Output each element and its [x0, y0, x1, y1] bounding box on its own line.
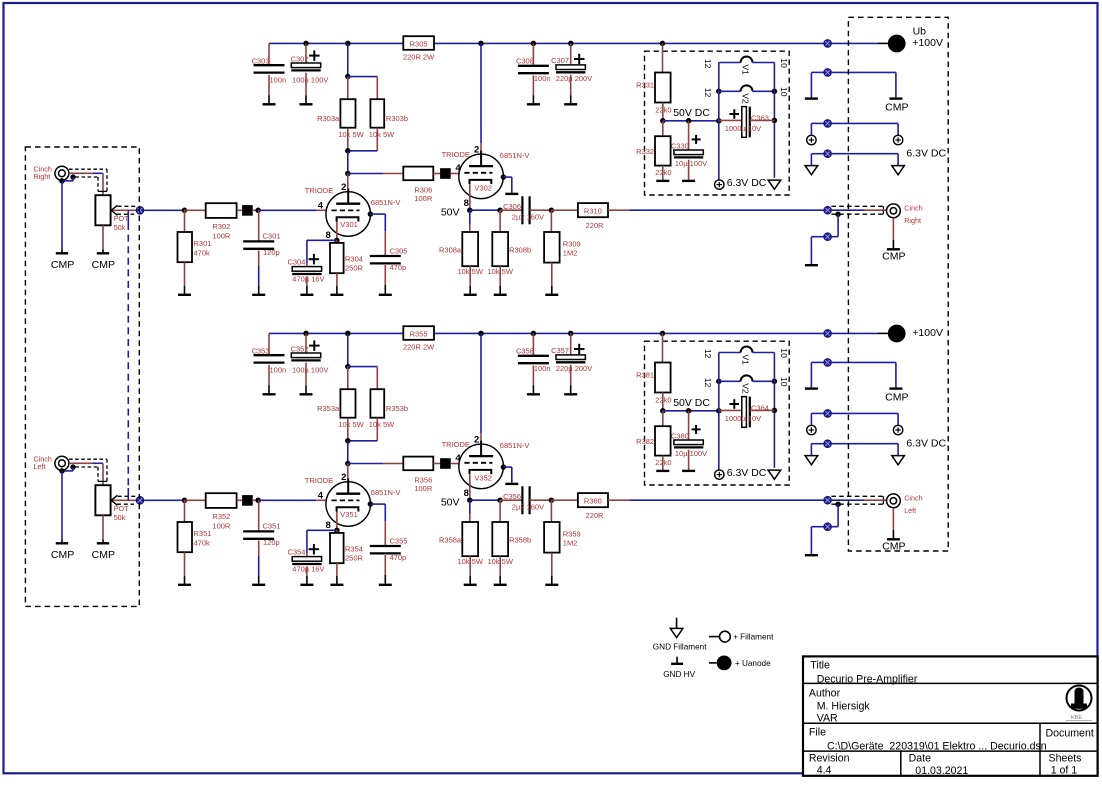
ground filament [768, 470, 781, 479]
svg-text:Title: Title [810, 660, 830, 672]
svg-text:VAR: VAR [817, 713, 838, 725]
svg-text:250R: 250R [345, 554, 364, 563]
wire input tip [69, 173, 103, 195]
svg-text:V302: V302 [474, 183, 492, 192]
svg-text:100n: 100n [534, 74, 551, 83]
svg-text:220R 2W: 220R 2W [403, 53, 435, 62]
wire to anode terminal [832, 42, 888, 44]
svg-text:CMP: CMP [885, 101, 908, 113]
svg-text:4: 4 [455, 163, 461, 174]
svg-text:TRIODE: TRIODE [305, 186, 333, 195]
svg-text:100R: 100R [212, 232, 231, 241]
title block [803, 656, 1098, 777]
resistor R302 100R [206, 203, 237, 241]
svg-text:C356: C356 [503, 492, 521, 501]
svg-text:2µ2 160V: 2µ2 160V [512, 503, 544, 512]
ground filament [805, 444, 823, 465]
svg-text:C306: C306 [503, 202, 521, 211]
ground [682, 160, 695, 181]
svg-text:+100V: +100V [912, 327, 943, 339]
svg-text:+ Uanode: + Uanode [735, 659, 771, 668]
wire input tip [69, 463, 103, 485]
capacitor C303 100n [252, 43, 287, 84]
connector Cinch Right input [34, 165, 69, 181]
capacitor C305 470p [368, 211, 408, 272]
resistor R308b 10k 5W [487, 210, 531, 276]
svg-text:V2: V2 [741, 93, 751, 104]
connector output shield [824, 214, 838, 240]
svg-text:CMP: CMP [882, 251, 905, 263]
svg-text:POT: POT [114, 214, 129, 223]
svg-text:8: 8 [464, 488, 469, 499]
svg-text:V301: V301 [340, 220, 358, 229]
resistor R301 470k [178, 210, 212, 262]
connector 6.3V return [824, 440, 832, 448]
svg-text:CMP: CMP [92, 549, 115, 561]
resistor R353b 10k 5W [348, 389, 408, 441]
svg-text:R382: R382 [636, 437, 654, 446]
net tie [433, 169, 459, 179]
svg-text:R310: R310 [584, 206, 602, 215]
triode V302 6851N-V [442, 41, 530, 211]
svg-text:10: 10 [779, 348, 789, 358]
capacitor C351 120p [243, 500, 280, 547]
svg-text:8: 8 [326, 230, 331, 241]
potentiometer POT 50k [95, 485, 137, 522]
svg-text:10k 5W: 10k 5W [338, 130, 364, 139]
ground [805, 527, 824, 556]
svg-text:01.03.2021: 01.03.2021 [915, 765, 968, 777]
capacitor C358 100n [516, 331, 551, 373]
svg-text:470k: 470k [194, 248, 211, 257]
svg-text:R303b: R303b [386, 114, 408, 123]
triode V351 6851N-V [305, 464, 401, 531]
svg-text:470p: 470p [390, 553, 407, 562]
ground [300, 363, 313, 395]
svg-text:100R: 100R [414, 194, 433, 203]
terminal Uanode +100V [888, 26, 943, 53]
svg-text:C358: C358 [516, 347, 534, 356]
heater supply box [645, 341, 790, 485]
ground filament [768, 180, 781, 189]
svg-text:R359: R359 [563, 529, 581, 538]
svg-text:1000µ 10V: 1000µ 10V [725, 414, 761, 423]
ground [564, 75, 577, 105]
resistor R309 1M2 [544, 207, 581, 262]
svg-text:M. Hiersigk: M. Hiersigk [817, 701, 871, 713]
ground CMP [92, 225, 115, 270]
svg-text:Author: Author [809, 688, 841, 700]
capacitor C363 1000u 10V [719, 107, 775, 138]
capacitor C304 470u 16V [287, 238, 339, 284]
resistor R310 220R [551, 203, 608, 230]
connector wiper [136, 496, 144, 504]
svg-text:220R: 220R [586, 511, 605, 520]
svg-text:R354: R354 [345, 544, 363, 553]
capacitor C356 2u2 160V [500, 486, 551, 514]
wire to anode terminal [832, 332, 888, 334]
capacitor C364 1000u 10V [719, 397, 775, 428]
svg-text:C301: C301 [263, 232, 281, 241]
ground [330, 273, 343, 295]
resistor R352 100R [206, 493, 237, 531]
svg-text:4: 4 [455, 453, 461, 464]
svg-text:R308a: R308a [439, 245, 462, 254]
ground [656, 456, 669, 471]
ground CMP [882, 508, 905, 553]
connector output signal [824, 496, 832, 504]
net tie [433, 459, 459, 469]
connector Cinch Left output [887, 494, 923, 515]
svg-text:1000µ 10V: 1000µ 10V [725, 124, 761, 133]
connector ground CMP [824, 359, 832, 367]
svg-text:100n: 100n [270, 76, 287, 85]
svg-text:CMP: CMP [51, 549, 74, 561]
svg-text:6851N-V: 6851N-V [500, 441, 530, 450]
capacitor C355 470p [368, 501, 408, 562]
connector supply +100V [824, 40, 832, 48]
svg-text:10k 5W: 10k 5W [338, 420, 364, 429]
ground filament [832, 148, 947, 175]
ground [501, 464, 519, 484]
resistor R354 250R [330, 530, 364, 563]
svg-text:470k: 470k [194, 538, 211, 547]
input cable shield [62, 459, 107, 481]
net tie [237, 206, 261, 216]
svg-text:6.3V DC: 6.3V DC [727, 467, 767, 479]
connector Cinch Right output [887, 204, 923, 225]
capacitor C352 100u 100V [291, 331, 329, 375]
svg-text:CMP: CMP [92, 259, 115, 271]
wire +100V supply rail right channel [269, 42, 823, 44]
resistor R308a 10k 5W [439, 210, 484, 276]
ground filament [805, 154, 823, 175]
ground CMP [832, 362, 909, 403]
ground [379, 265, 392, 295]
resistor R358a 10k 5W [439, 500, 484, 566]
svg-text:C303: C303 [252, 57, 270, 66]
svg-text:10µ 100V: 10µ 100V [675, 159, 707, 168]
legend ground HV symbol [663, 657, 695, 680]
ground CMP [882, 218, 905, 263]
resistor R303b 10k 5W [348, 99, 408, 151]
svg-text:R303a: R303a [317, 114, 340, 123]
svg-text:1M2: 1M2 [563, 538, 578, 547]
node 50V [441, 497, 503, 509]
ground [263, 365, 276, 394]
ground [252, 251, 265, 295]
svg-text:50k: 50k [114, 513, 126, 522]
svg-text:10k 5W: 10k 5W [369, 130, 395, 139]
tube heater V2 [703, 375, 789, 394]
shielded output wire [831, 206, 886, 217]
svg-text:+ Fillament: + Fillament [733, 632, 774, 641]
svg-text:C380: C380 [671, 431, 689, 440]
wire heater left leg [718, 63, 720, 121]
ground CMP [92, 515, 115, 561]
ground CMP [832, 72, 909, 113]
resistor R304 250R [330, 240, 364, 273]
svg-text:100µ 100V: 100µ 100V [292, 366, 328, 375]
legend + Filament terminal [709, 631, 774, 642]
resistor R332 22k0 [636, 121, 671, 177]
svg-text:Cinch: Cinch [904, 494, 922, 503]
ground [545, 553, 558, 585]
resistor R351 470k [178, 500, 212, 552]
svg-text:50V: 50V [441, 207, 460, 219]
ground [252, 541, 265, 585]
svg-text:Cinch: Cinch [904, 204, 922, 213]
svg-text:12: 12 [703, 88, 713, 98]
wire +100V supply rail left channel [269, 332, 823, 334]
svg-text:R355: R355 [410, 330, 428, 339]
node 50V DC [660, 107, 722, 124]
resistor R331 22k0 [636, 41, 671, 121]
svg-text:100R: 100R [212, 522, 231, 531]
terminal +6.3V DC [715, 411, 767, 480]
wire anode node [345, 148, 403, 176]
svg-text:50V DC: 50V DC [673, 397, 710, 409]
svg-text:C357: C357 [551, 346, 569, 355]
svg-text:120p: 120p [263, 538, 280, 547]
svg-text:R302: R302 [212, 222, 230, 231]
terminal Uanode +100V [888, 325, 943, 343]
svg-text:R304: R304 [345, 254, 363, 263]
terminal + filament [832, 413, 903, 434]
ground CMP [51, 468, 74, 561]
svg-text:50k: 50k [114, 223, 126, 232]
svg-text:R301: R301 [194, 239, 212, 248]
shielded output wire [831, 496, 886, 507]
wire grid net [258, 209, 326, 211]
connector output signal [824, 206, 832, 214]
svg-text:GND HV: GND HV [663, 670, 695, 679]
connector +6.3V [824, 410, 832, 418]
svg-text:Right: Right [34, 172, 51, 181]
node 50V DC [660, 397, 722, 414]
capacitor C330 10u 100V [671, 121, 707, 168]
svg-text:GND Fillament: GND Fillament [653, 642, 707, 651]
terminal +6.3V DC [715, 121, 767, 190]
svg-text:R331: R331 [636, 81, 654, 90]
svg-text:2: 2 [474, 145, 479, 156]
ground [494, 556, 507, 585]
ground CMP [51, 178, 74, 271]
svg-text:220R 2W: 220R 2W [403, 343, 435, 352]
svg-text:1 of 1: 1 of 1 [1051, 765, 1078, 777]
svg-text:R353b: R353b [386, 404, 408, 413]
tube heater V1 [703, 347, 789, 366]
connector supply +100V [824, 330, 832, 338]
capacitor C357 220u 200V [551, 331, 592, 373]
ground [330, 563, 343, 585]
svg-text:10: 10 [779, 87, 789, 97]
svg-text:V1: V1 [741, 64, 751, 75]
capacitor C354 470u 16V [287, 528, 339, 574]
resistor R358b 10k 5W [487, 500, 531, 566]
capacitor C306 2u2 160V [500, 196, 551, 224]
svg-text:C363: C363 [751, 113, 769, 122]
svg-text:2: 2 [341, 182, 346, 193]
ground [300, 73, 313, 105]
capacitor C308 100n [516, 41, 551, 83]
svg-text:6.3V DC: 6.3V DC [727, 177, 767, 189]
svg-text:470p: 470p [390, 263, 407, 272]
svg-text:8: 8 [464, 198, 469, 209]
wire input net [144, 208, 206, 214]
svg-text:470µ 16V: 470µ 16V [292, 564, 324, 573]
resistor R305 220R 2W [403, 36, 435, 61]
svg-text:100R: 100R [414, 484, 433, 493]
svg-text:10: 10 [779, 377, 789, 387]
svg-text:50V DC: 50V DC [673, 107, 710, 119]
svg-text:C302: C302 [291, 55, 309, 64]
resistor R306 100R [403, 167, 433, 204]
ground [494, 266, 507, 295]
svg-text:C355: C355 [390, 536, 408, 545]
connector output shield [824, 504, 838, 530]
svg-text:+100V: +100V [912, 37, 943, 49]
ground [178, 262, 191, 295]
svg-text:C308: C308 [516, 57, 534, 66]
net tie [237, 496, 261, 506]
capacitor C380 10u 100V [671, 411, 707, 458]
svg-text:C330: C330 [671, 141, 689, 150]
ground [263, 75, 276, 104]
legend ground filament symbol [653, 618, 707, 652]
output section box [848, 17, 948, 551]
svg-text:R308b: R308b [509, 245, 531, 254]
svg-text:6851N-V: 6851N-V [371, 488, 401, 497]
ground filament [832, 438, 947, 465]
connector wiper [136, 206, 144, 214]
wire heater right leg [772, 63, 778, 178]
svg-text:100n: 100n [534, 364, 551, 373]
terminal + filament [807, 123, 824, 144]
svg-text:120p: 120p [263, 248, 280, 257]
capacitor C307 220u 200V [551, 41, 592, 83]
tube heater V1 [703, 57, 789, 76]
capacitor C353 100n [252, 333, 287, 374]
terminal + filament [807, 413, 824, 434]
svg-text:6851N-V: 6851N-V [500, 151, 530, 160]
ground [656, 166, 669, 181]
svg-text:10: 10 [779, 58, 789, 68]
connector ground CMP [824, 69, 832, 77]
triode V301 6851N-V [305, 174, 401, 241]
svg-text:2: 2 [474, 435, 479, 446]
terminal + filament [832, 123, 903, 144]
wire heater left leg [718, 353, 720, 411]
resistor R359 1M2 [544, 497, 581, 552]
ground [564, 365, 577, 395]
svg-text:TRIODE: TRIODE [442, 440, 470, 449]
svg-text:220µ 200V: 220µ 200V [556, 364, 592, 373]
svg-text:Revision: Revision [809, 752, 850, 764]
resistor R382 22k0 [636, 411, 671, 467]
svg-text:12: 12 [703, 349, 713, 359]
potentiometer POT 50k [95, 195, 137, 232]
svg-text:50V: 50V [441, 497, 460, 509]
svg-text:250R: 250R [345, 264, 364, 273]
wire node to R303a R303b [345, 41, 377, 100]
resistor R381 22k0 [636, 331, 671, 411]
svg-text:TRIODE: TRIODE [442, 150, 470, 159]
svg-text:C351: C351 [263, 522, 281, 531]
svg-text:10µ 100V: 10µ 100V [675, 449, 707, 458]
svg-text:R353a: R353a [317, 404, 340, 413]
svg-text:R352: R352 [212, 512, 230, 521]
triode V352 6851N-V [442, 331, 530, 501]
svg-text:2: 2 [341, 472, 346, 483]
svg-text:Right: Right [904, 216, 921, 225]
svg-text:C305: C305 [390, 246, 408, 255]
wire input net [144, 498, 206, 504]
resistor R303a 10k 5W [317, 77, 365, 151]
ground [501, 174, 519, 194]
ground [178, 552, 191, 585]
svg-text:220R: 220R [586, 221, 605, 230]
svg-text:R360: R360 [584, 496, 602, 505]
ground [300, 276, 313, 295]
wire grid net [258, 499, 326, 501]
svg-text:Sheets: Sheets [1049, 752, 1082, 764]
svg-text:470µ 16V: 470µ 16V [292, 274, 324, 283]
connector +6.3V [824, 120, 832, 128]
svg-text:100n: 100n [270, 366, 287, 375]
wire shielded wiper run [127, 210, 129, 500]
resistor R355 220R 2W [403, 326, 435, 351]
svg-text:2µ2 160V: 2µ2 160V [512, 213, 544, 222]
svg-text:4.4: 4.4 [817, 765, 832, 777]
svg-text:6.3V DC: 6.3V DC [906, 148, 946, 160]
heater supply box [645, 51, 790, 195]
svg-text:C304: C304 [287, 258, 305, 267]
capacitor C302 100u 100V [291, 41, 329, 85]
svg-text:CMP: CMP [885, 391, 908, 403]
wire output net [608, 499, 823, 501]
svg-text:R309: R309 [563, 239, 581, 248]
connector Cinch Left input [34, 455, 69, 471]
svg-text:8: 8 [326, 520, 331, 531]
svg-text:V2: V2 [741, 383, 751, 394]
wire node to R303a R303b [345, 331, 377, 390]
svg-text:6.3V DC: 6.3V DC [906, 438, 946, 450]
wire heater right leg [772, 353, 778, 468]
ground [464, 266, 477, 295]
svg-text:V352: V352 [474, 473, 492, 482]
ground [805, 72, 824, 98]
svg-text:C352: C352 [291, 345, 309, 354]
svg-text:V1: V1 [741, 354, 751, 365]
svg-text:R358b: R358b [509, 535, 531, 544]
svg-text:Left: Left [34, 462, 46, 471]
svg-text:100µ 100V: 100µ 100V [292, 76, 328, 85]
ground [527, 76, 540, 105]
svg-text:POT: POT [114, 504, 129, 513]
capacitor C301 120p [243, 210, 280, 257]
svg-text:File: File [809, 727, 826, 739]
resistor R360 220R [551, 493, 608, 520]
input section box [25, 147, 139, 606]
svg-text:C354: C354 [287, 548, 305, 557]
ground [805, 362, 824, 388]
svg-text:V351: V351 [340, 510, 358, 519]
ground [464, 556, 477, 585]
svg-text:C364: C364 [751, 403, 769, 412]
svg-text:R305: R305 [410, 40, 428, 49]
resistor R356 100R [403, 457, 433, 494]
